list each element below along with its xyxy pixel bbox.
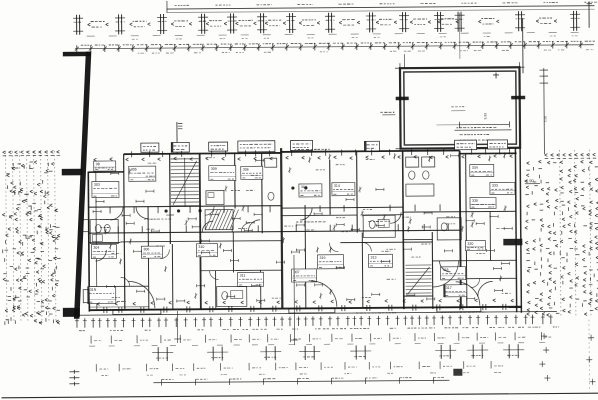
big door arc right core [432, 261, 458, 287]
top dimension chain line [75, 45, 594, 49]
stairwell 2 treads [406, 265, 432, 294]
annotation w przekroju bottom [356, 312, 359, 314]
right block lower sparse marks [541, 335, 547, 337]
svg-text:313: 313 [370, 256, 376, 260]
garage-roof square: left wall tick [396, 97, 409, 101]
roof annotation box 2 [141, 143, 159, 152]
svg-text:309: 309 [211, 167, 217, 171]
balcony bump centre [289, 308, 335, 313]
bathroom C fixtures [363, 215, 395, 237]
garage-roof square: corner mark top-right [493, 74, 499, 76]
svg-text:31N: 31N [90, 288, 97, 292]
garage-roof square: corner overshoots [395, 67, 400, 69]
svg-text:304: 304 [93, 246, 99, 250]
garage-roof square: stub above left wall [403, 54, 405, 68]
svg-text:306: 306 [143, 247, 149, 251]
core fixtures cluster [406, 157, 419, 167]
garage-roof square: interior dimension line lower [454, 129, 511, 131]
room 31N label [88, 286, 116, 303]
stairwell2 top wall [340, 241, 432, 244]
top strip: second boundary line [167, 9, 595, 12]
right block scattered marks [527, 162, 530, 163]
room 313 label [368, 254, 392, 267]
garage-roof square: exterior label left [380, 111, 383, 113]
left thick reference line: top stub [63, 52, 91, 57]
svg-text:333: 333 [492, 184, 498, 188]
wall between rooms 309/306 [234, 153, 236, 208]
left block: scattered figure marks [29, 167, 32, 169]
bathroom B fixtures [217, 286, 247, 306]
left block: dotted column lines [6, 151, 7, 323]
right block top row [545, 154, 548, 155]
garage-roof square: interior text lines [456, 127, 458, 129]
right wing partition x490 [489, 211, 491, 260]
wall left of core 2 [356, 152, 359, 233]
lower partition x233 [232, 232, 234, 272]
bottom extra dash row a [89, 345, 95, 347]
top strip: axis tick pairs [76, 15, 78, 35]
small door arcs lower rooms [160, 250, 169, 259]
partition room 314 bottom [281, 214, 357, 217]
bath zone top [362, 214, 403, 216]
garage-roof square: outer wall [400, 67, 520, 148]
door arc mid [390, 212, 401, 223]
roof annotation box 3 [171, 142, 189, 152]
section cut line A [176, 311, 178, 343]
garage-roof square: right wall tick [511, 96, 525, 100]
lower partition x260 [260, 270, 262, 308]
small dim marks above square left [451, 106, 453, 108]
vertical line above square right corner [522, 18, 524, 73]
bottom long dimension line [153, 380, 449, 382]
partition centre c [201, 270, 236, 272]
sheet bottom border line [2, 393, 598, 398]
annotation bottom right of plan [441, 311, 443, 313]
corridor top wall centre [281, 206, 403, 209]
roof annotation box 7 [364, 141, 379, 151]
interior dimension marks [96, 201, 104, 203]
right block lower dotted vertical [588, 320, 591, 391]
svg-text:314: 314 [334, 184, 340, 188]
plan outer wall: left double [88, 172, 89, 312]
window ticks on bottom wall [103, 307, 105, 313]
lower stair-hall left wall [171, 244, 174, 309]
door arc hall c [300, 208, 312, 220]
room 311 label [238, 272, 264, 286]
top strip: upper boundary line [166, 6, 594, 9]
stairwell2 bottom wall [404, 295, 433, 297]
svg-text:335: 335 [472, 199, 478, 203]
partition centre a [236, 269, 282, 271]
garage-roof square: interior dimension line upper [459, 123, 509, 125]
inner wall tick row under top wall [94, 158, 97, 159]
plan outer wall: top main [124, 153, 281, 154]
room 335 label [470, 197, 496, 208]
kitchen niche x265 [265, 158, 277, 167]
room 318 label [441, 267, 466, 280]
plan outer wall: top left-wing [88, 171, 123, 173]
wall between wings [460, 151, 461, 309]
room 306 label [241, 166, 263, 179]
wall right of room 304 [329, 160, 331, 215]
svg-text:306: 306 [243, 168, 249, 172]
svg-text:334: 334 [472, 166, 478, 170]
left thick reference line: middle stub [62, 169, 83, 176]
window ticks on top wall [131, 151, 133, 157]
top band drop line at x461 [459, 13, 461, 59]
dark reference plate [503, 239, 522, 246]
svg-text:317: 317 [446, 286, 452, 290]
svg-text:303: 303 [94, 183, 100, 187]
corridor junction dots [164, 209, 167, 212]
section cut line B [293, 255, 296, 345]
wall at square left line [403, 151, 404, 309]
roof annotation box 8 [455, 140, 477, 150]
svg-text:320: 320 [467, 242, 473, 246]
roof annotation box 5 [238, 141, 275, 152]
door arc hall b [248, 220, 260, 232]
stairwell right wall [200, 154, 201, 309]
stairwell left wall [169, 154, 172, 244]
plan outer wall: right double [515, 148, 516, 312]
door arc core [202, 221, 213, 232]
wall left of stair hall [147, 206, 150, 309]
partition right a [432, 259, 516, 262]
lower partition x215 [215, 271, 217, 309]
left wall protruding boxes [83, 220, 89, 232]
wall right of room 306 [261, 153, 264, 233]
room 319 label [317, 255, 343, 269]
partition right b [467, 277, 517, 279]
corridor top wall right [403, 210, 516, 213]
door arc hall a [110, 207, 123, 220]
bottom extra dash row b [101, 375, 103, 377]
roof annotation box 4 [209, 142, 228, 151]
top strip: value dashes between ticks [91, 21, 94, 23]
survey mast above plan [176, 122, 178, 153]
room 309 label [209, 165, 236, 180]
room 304 label [299, 184, 322, 197]
drying room hatch [205, 210, 214, 230]
door arc balcony centre [311, 281, 337, 307]
room 333 label [490, 182, 515, 194]
roof annotation box 9 [488, 140, 508, 149]
corridor text centre [296, 221, 298, 223]
room 307 label [292, 269, 317, 282]
wall between rooms 303/305 [124, 154, 125, 309]
top strip: left corner vertical [166, 1, 168, 12]
bottom left stack marks [69, 371, 79, 373]
room 303 label [92, 181, 119, 197]
wall lower right-centre [361, 233, 364, 308]
room 305 label [129, 166, 156, 181]
partition left wing b [89, 285, 148, 287]
plan outer wall: top right-wing [460, 152, 517, 154]
right wing mid [403, 238, 432, 240]
svg-text:319: 319 [319, 256, 325, 260]
right block dotted verticals [560, 150, 561, 318]
left thick reference line: bottom foot [63, 308, 80, 317]
room 304b label [91, 244, 116, 258]
svg-text:311: 311 [240, 274, 246, 278]
bottom tick row 3 (tall pairs) [157, 347, 159, 361]
room 314 label [332, 183, 355, 196]
door arc balcony right [456, 282, 480, 306]
top-right vertical reference line [588, 2, 590, 28]
door arc balcony left [128, 281, 155, 308]
left thick reference line: vertical bar [72, 52, 94, 319]
door arc room left [95, 250, 106, 261]
svg-text:310: 310 [198, 245, 204, 249]
corridor top wall left [89, 206, 281, 208]
right-of-square vertical dimension line [543, 68, 546, 154]
partition left wing a [89, 241, 120, 243]
right wing inner wall [466, 154, 467, 307]
stairwell 1 treads [171, 158, 199, 207]
top strip: figure row above line [174, 4, 176, 6]
garage-roof square: inner wall [404, 71, 517, 145]
svg-text:1.50: 1.50 [543, 116, 547, 122]
building separation wall [281, 148, 282, 308]
bottom dark mark [453, 369, 462, 376]
door arc top left [136, 207, 148, 219]
svg-text:98: 98 [96, 162, 100, 166]
roof annotation box 6 [291, 140, 313, 150]
annotation w przekroju top [295, 149, 297, 151]
corridor bottom wall [89, 230, 460, 233]
roof label box 1 [94, 161, 116, 171]
inner wall tick row above bottom wall [97, 303, 100, 304]
top strip: dashed intermediate row [87, 35, 95, 37]
balcony bump left [113, 310, 161, 315]
secondary corridor wall [120, 241, 281, 242]
bottom tick row 4 [95, 364, 97, 371]
door arc hall d [439, 261, 450, 272]
bottom dimension chain line [71, 311, 557, 315]
door arc right wing [478, 281, 493, 296]
svg-text:3.33: 3.33 [483, 113, 487, 120]
balcony bump right [437, 307, 481, 312]
bottom tick row 2 [90, 336, 92, 344]
room 310 label [196, 244, 217, 257]
kitchen niche centre [206, 191, 224, 205]
bottom tick row 1 [76, 318, 78, 327]
svg-text:305: 305 [131, 167, 137, 171]
plan outer wall: bottom [89, 307, 521, 310]
corridor stub walls [109, 207, 111, 213]
stairwell2 right wall [431, 232, 434, 309]
room 317 label [444, 285, 467, 297]
room 320 label [465, 241, 485, 251]
room 334 label [470, 164, 494, 176]
bathroom A fixtures [90, 219, 118, 243]
left block: dense top row [3, 151, 6, 152]
room 306b label [141, 246, 162, 258]
bathroom D fixtures [437, 218, 461, 240]
hall wall lower centre [304, 205, 307, 308]
